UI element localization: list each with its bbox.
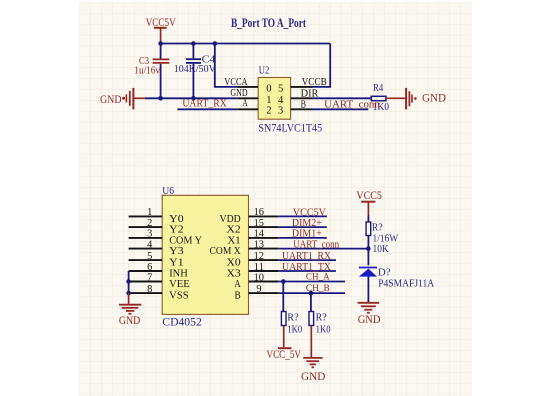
wire pin11 UART1_TX [278,270,336,272]
U6 pin 15 X2 line [249,226,279,228]
power port VCC5 [356,188,382,216]
U6 pin 12 X0 line [249,259,279,261]
svg-text:1K0: 1K0 [287,324,302,336]
ground (diode) [358,303,380,313]
svg-text:U6: U6 [162,185,174,197]
svg-text:B: B [301,100,306,111]
U6 pin 11 X3 line [249,270,279,272]
svg-text:DIM2+: DIM2+ [292,218,322,229]
svg-text:GND: GND [119,313,141,327]
svg-text:A: A [243,98,248,109]
svg-text:D?: D? [378,266,391,278]
power port VCC5V [146,15,176,43]
wire B stub [313,108,369,110]
svg-text:VEE: VEE [169,279,190,290]
junction rail/C4 [191,41,196,46]
svg-text:VDD: VDD [220,214,242,225]
wire pin16 VCC5V [278,215,327,217]
svg-text:6: 6 [147,262,152,273]
U6 pin 5 line [129,259,163,261]
svg-text:VCCA: VCCA [224,77,248,88]
svg-text:10K: 10K [373,243,389,255]
svg-text:1u/16v: 1u/16v [134,65,160,77]
IC U6 right pin names [210,214,242,302]
svg-text:VCC5V: VCC5V [293,207,327,218]
resistor R? 10K 1/16W [366,216,399,266]
ground (CH_B pull) [303,358,322,367]
wire A stub [177,108,237,110]
svg-text:X1: X1 [228,235,241,246]
wire pin12 UART1_RX [278,259,336,261]
junction pin9/R? [309,291,314,296]
pin B line [291,108,313,110]
wire DIR to R4 [313,97,372,99]
junction VEE [126,279,131,284]
IC U6 right pin numbers [254,207,265,295]
svg-text:5: 5 [278,84,283,95]
svg-text:12: 12 [254,251,264,262]
svg-text:X3: X3 [227,269,241,280]
svg-text:15: 15 [254,218,264,229]
svg-text:B: B [235,291,241,302]
svg-text:3: 3 [278,105,283,116]
U6 pin 1 line [129,215,163,217]
svg-text:U2: U2 [259,64,270,76]
svg-text:1: 1 [147,207,152,218]
svg-text:GND: GND [301,369,326,383]
svg-text:9: 9 [256,284,261,295]
wire pin10 CH_A [278,281,345,283]
svg-text:2: 2 [266,105,271,116]
svg-text:R?: R? [316,312,327,324]
svg-text:Y2: Y2 [169,225,183,236]
svg-text:COM X: COM X [210,246,242,257]
IC U6 CD4052 [162,185,248,329]
capacitor C4 [174,44,216,99]
junction VSS [126,291,131,296]
resistor R? (CH_B pull, 1K0) [309,293,331,357]
junction rail/VCCA [213,41,218,46]
svg-text:VCC5: VCC5 [356,188,382,202]
svg-text:8: 8 [147,284,152,295]
schematic sheet [80,2,472,396]
svg-text:CH_A: CH_A [306,271,330,282]
svg-text:10: 10 [254,272,264,283]
svg-text:VCC_5V: VCC_5V [267,347,302,361]
svg-text:11: 11 [254,262,264,273]
svg-text:5: 5 [147,251,152,262]
U6 pin 6 INH line [129,270,163,272]
svg-text:0: 0 [266,84,271,95]
svg-text:Y0: Y0 [169,214,183,225]
svg-text:4: 4 [147,239,153,250]
U6 pin 7 VEE line [129,281,163,283]
svg-text:1: 1 [266,95,271,106]
U6 pin 13 COM X line [249,248,279,250]
junction rail/C3 [158,41,163,46]
pin DIR line [291,97,313,99]
pin 3 A line [237,108,258,110]
U6 pin 4 line [129,248,163,250]
svg-text:R?: R? [287,312,298,324]
svg-text:R4: R4 [373,82,384,94]
IC U6 right pin lines [249,216,279,293]
power port GND (top left) [100,88,145,110]
power port GND (right of R4) [406,88,446,110]
IC U2 SN74LVC1T45 [258,64,322,134]
IC U6 left pin names [169,214,202,302]
pin 2 GND line [237,97,258,99]
svg-text:GND: GND [358,312,381,326]
svg-text:UART1_RX: UART1_RX [282,251,331,262]
wire pin15 DIM2+ [278,226,327,228]
wire INH/VEE/VSS bus [128,271,130,293]
svg-text:R?: R? [372,221,383,233]
svg-text:4: 4 [278,95,284,106]
svg-text:COM Y: COM Y [169,235,202,246]
wire R4 to GND [386,97,406,99]
wire to ground [128,293,130,304]
svg-text:3: 3 [147,229,152,240]
junction GND/C3 [158,96,163,101]
U6 pin 10 A line [249,281,279,283]
IC U6 left pin numbers [147,207,153,295]
U6 pin 8 VSS line [129,292,163,294]
ground (U6 left) [119,305,141,314]
wire pin9 CH_B [278,292,345,294]
capacitor C3 [134,44,169,99]
svg-text:A: A [234,279,241,290]
resistor R? (CH_A pull, 1K0) [281,282,302,348]
svg-text:1K0: 1K0 [316,324,331,336]
svg-text:UART_conn: UART_conn [324,99,380,110]
junction GND/C4 [191,96,196,101]
svg-text:CD4052: CD4052 [162,316,202,328]
wire VCCA drop [215,44,238,87]
wire GND rail to U2 [145,97,237,99]
U6 pin 16 VDD line [249,215,279,217]
svg-text:DIM1+: DIM1+ [292,229,322,240]
power port VCC_5V [267,347,302,361]
pin VCCB line [291,86,313,88]
svg-text:B_Port TO A_Port: B_Port TO A_Port [231,16,307,30]
svg-text:INH: INH [169,269,188,280]
pin 1 VCCA line [237,86,258,88]
svg-text:UART_conn: UART_conn [293,240,340,251]
svg-text:104K/50V: 104K/50V [174,64,216,75]
svg-text:GND: GND [422,91,446,105]
U6 pin 3 line [129,237,163,239]
svg-text:7: 7 [147,272,152,283]
svg-text:13: 13 [254,239,264,250]
svg-text:14: 14 [254,229,265,240]
U6 pin 14 X1 line [249,237,279,239]
svg-text:X2: X2 [227,225,241,236]
U6 pin 2 line [129,226,163,228]
wire pin14 DIM1+ [278,237,327,239]
resistor R4 [371,82,389,113]
U6 pin 9 B line [249,292,279,294]
diode D? P4SMAFJ11A [359,266,434,302]
IC U6 left pin lines [129,216,163,293]
svg-text:16: 16 [254,207,264,218]
wire pin13 UART_conn [278,248,368,250]
wire VCCB riser [313,44,331,87]
wire VCC5V rail [161,43,331,45]
svg-text:GND: GND [100,92,122,106]
junction pin13/R? [366,246,371,251]
svg-text:SN74LVC1T45: SN74LVC1T45 [258,122,322,134]
svg-text:Y3: Y3 [169,246,183,257]
svg-text:UART_RX: UART_RX [182,99,227,110]
svg-text:2: 2 [147,218,152,229]
svg-text:P4SMAFJ11A: P4SMAFJ11A [378,278,434,290]
svg-text:VSS: VSS [169,291,189,302]
svg-text:Y1: Y1 [169,258,183,269]
junction pin10/R? [281,279,286,284]
svg-text:X0: X0 [227,258,241,269]
